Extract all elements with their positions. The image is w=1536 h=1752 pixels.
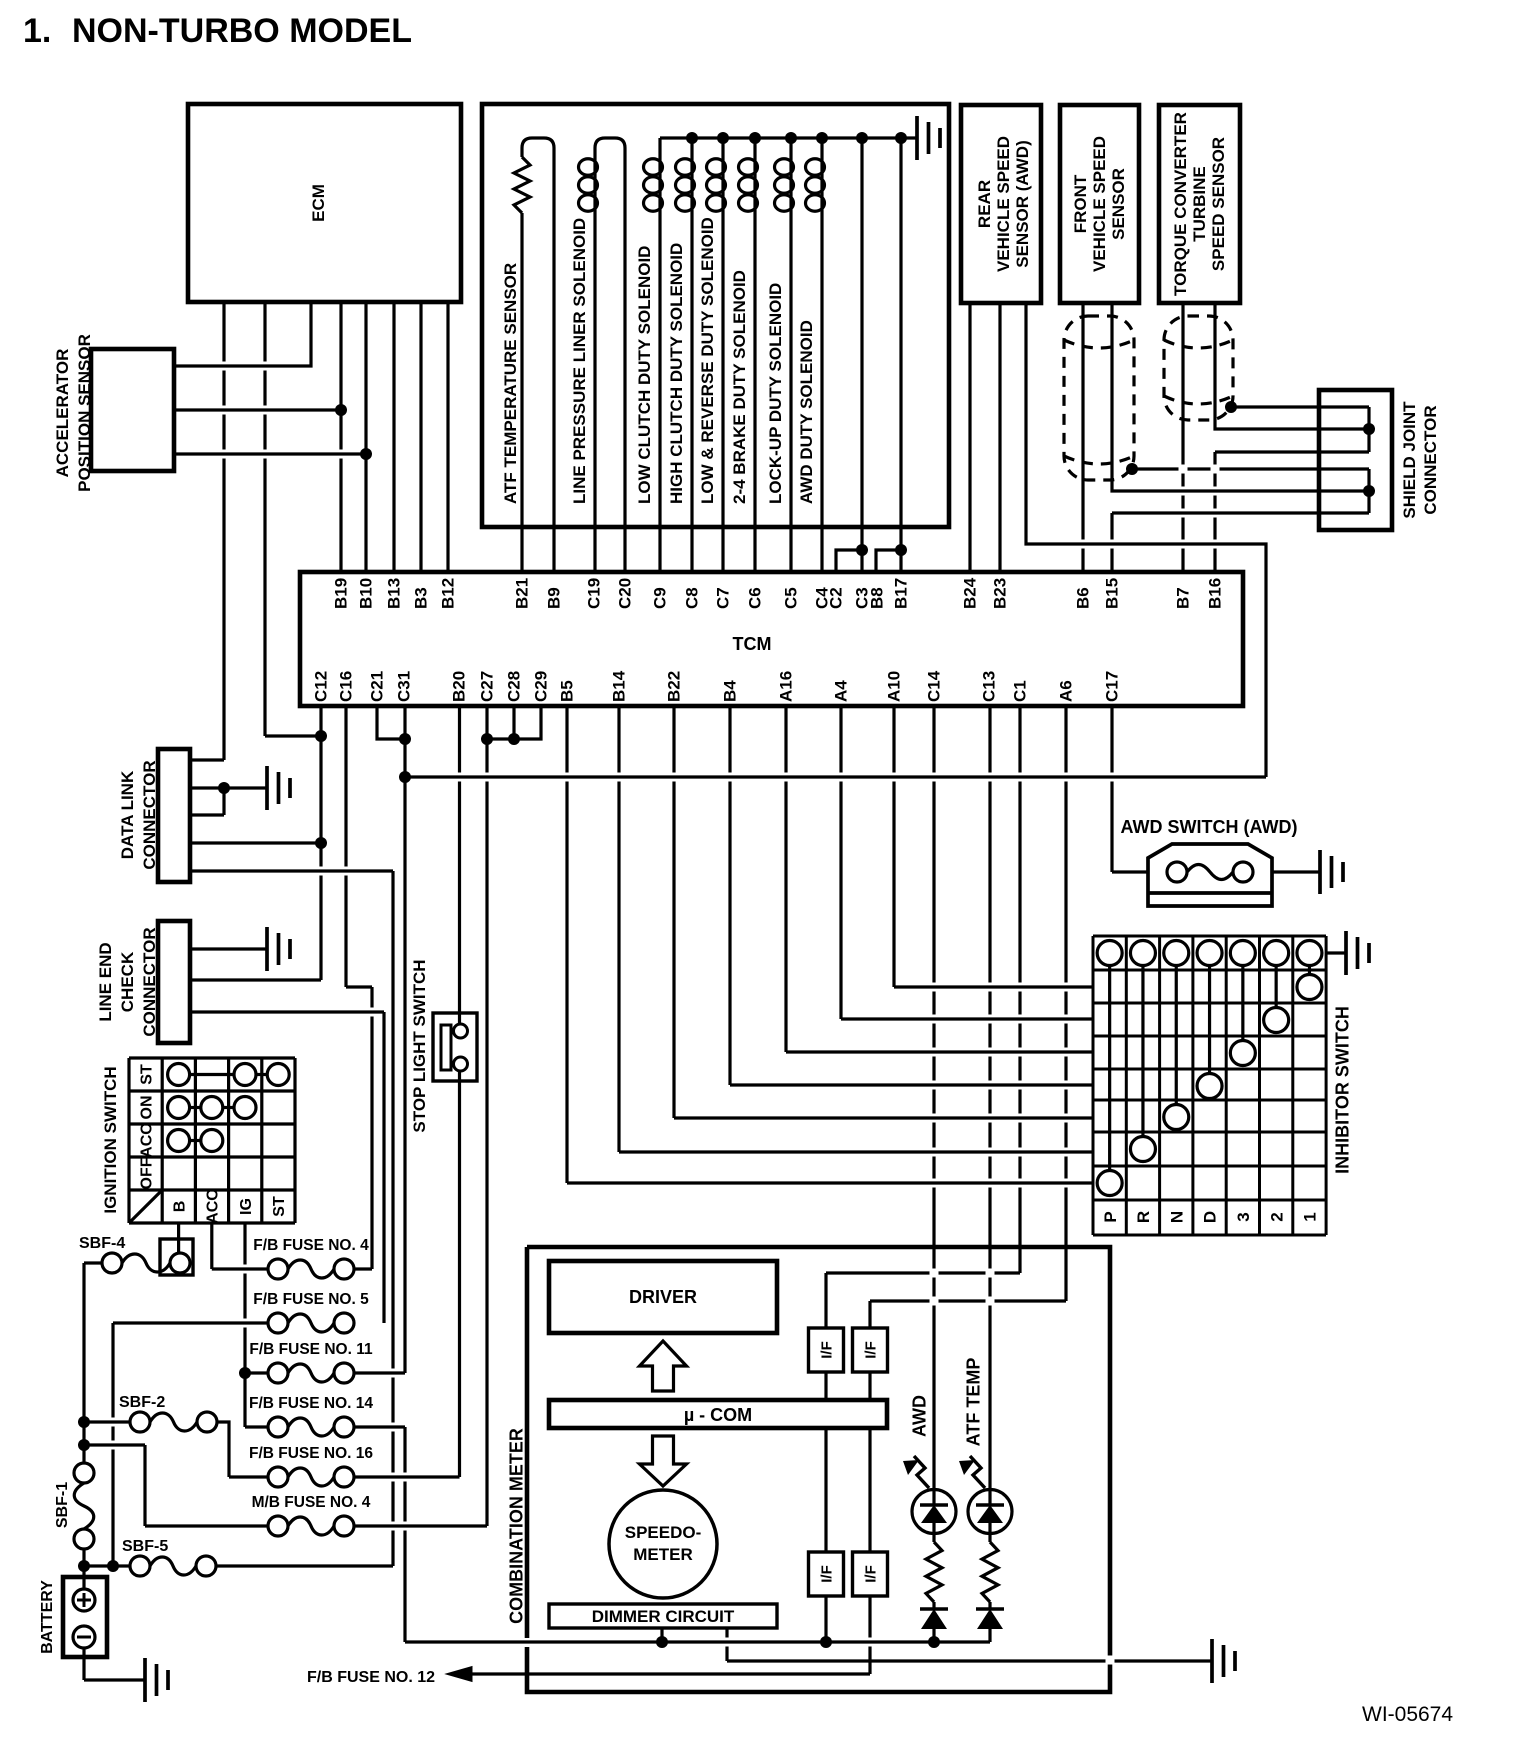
svg-text:STOP LIGHT SWITCH: STOP LIGHT SWITCH (410, 959, 429, 1132)
wire B17 (899, 138, 902, 572)
svg-text:µ - COM: µ - COM (684, 1405, 752, 1425)
wire I/F3 to bus (824, 1596, 827, 1642)
wire C16 (344, 706, 347, 987)
wire B23 (998, 303, 1001, 572)
rear vehicle speed sensor box (961, 105, 1041, 303)
ground data link (267, 766, 290, 810)
DRIVER box (549, 1261, 777, 1333)
svg-text:ECM: ECM (309, 184, 328, 222)
svg-text:C9: C9 (651, 587, 670, 609)
svg-text:B21: B21 (513, 578, 532, 609)
junction acc2/B19 (335, 404, 347, 416)
wire data link pin3 (190, 813, 224, 816)
inductor line pressure liner solenoid (593, 158, 596, 212)
junction bus x755 (749, 132, 761, 144)
svg-text:B19: B19 (332, 578, 351, 609)
svg-text:A4: A4 (832, 680, 851, 702)
ground battery (145, 1658, 168, 1702)
svg-text:C31: C31 (395, 671, 414, 702)
svg-text:COMBINATION METER: COMBINATION METER (506, 1428, 526, 1624)
junction bus x791 (785, 132, 797, 144)
ignition switch grid (129, 1058, 295, 1223)
svg-text:3: 3 (1234, 1212, 1253, 1221)
svg-text:C16: C16 (337, 671, 356, 702)
svg-text:TORQUE CONVERTER: TORQUE CONVERTER (1171, 112, 1190, 296)
fuse M/B FUSE NO. 4 (268, 1516, 288, 1536)
wire acc sensor pin2 to node B19 (174, 408, 341, 411)
junction rail/SBF-2 (78, 1416, 90, 1428)
junction AWD/bus (928, 1636, 940, 1648)
svg-text:AWD: AWD (909, 1395, 929, 1437)
wire data link pin4 to C12 (190, 841, 321, 844)
svg-text:I/F: I/F (818, 1565, 835, 1583)
wire B8 to B17 (876, 550, 901, 572)
wire B20 to stop light switch (458, 706, 461, 1024)
arrow up to driver (640, 1341, 687, 1391)
svg-text:C29: C29 (532, 671, 551, 702)
svg-text:INHIBITOR SWITCH: INHIBITOR SWITCH (1332, 1006, 1352, 1174)
wire dimmer to ground (725, 1628, 728, 1661)
I/F box 4 (853, 1552, 888, 1596)
TCM box (300, 572, 1243, 706)
svg-text:2: 2 (1267, 1212, 1286, 1221)
svg-text:AWD SWITCH (AWD): AWD SWITCH (AWD) (1121, 817, 1298, 837)
wire ignition ACC to fuse4 (210, 1223, 213, 1269)
data link connector box (158, 749, 190, 882)
wire A10 to inhibitor (892, 706, 895, 987)
svg-text:A10: A10 (885, 671, 904, 702)
svg-text:SPEEDO-: SPEEDO- (625, 1523, 702, 1542)
shield joint internal bus 1 (1367, 407, 1370, 452)
svg-text:FRONT: FRONT (1071, 174, 1090, 233)
svg-text:REAR: REAR (975, 180, 994, 228)
wire I/F1 to uCOM (824, 1372, 827, 1400)
svg-text:I/F: I/F (862, 1565, 879, 1583)
wire C1 to meter I/F (1018, 706, 1021, 1273)
svg-text:DRIVER: DRIVER (629, 1287, 697, 1307)
wire rear sensor shield to C31 net (1026, 303, 1266, 777)
I/F box 3 (809, 1552, 844, 1596)
svg-text:SBF-4: SBF-4 (79, 1235, 125, 1252)
svg-text:B22: B22 (665, 671, 684, 702)
wire B10 (364, 302, 367, 572)
svg-text:ACC: ACC (205, 1189, 222, 1224)
svg-text:ATF TEMP: ATF TEMP (963, 1358, 983, 1447)
wire battery negative to ground (82, 1648, 85, 1680)
wire ECM to data link connector (222, 302, 225, 760)
front vehicle speed sensor box (1060, 105, 1139, 303)
fuse F/B FUSE NO. 11 (268, 1363, 288, 1383)
shield joint connector box (1319, 390, 1392, 530)
svg-text:C28: C28 (505, 671, 524, 702)
torque shield drain junction (1225, 401, 1237, 413)
ground line end check (267, 927, 290, 971)
svg-text:HIGH CLUTCH DUTY SOLENOID: HIGH CLUTCH DUTY SOLENOID (667, 243, 686, 504)
ATF LED (968, 1490, 1012, 1534)
wire B21 loop (522, 138, 554, 572)
junction bus x822 (816, 132, 828, 144)
wire A6 feed to I/F2 (868, 1301, 871, 1328)
junction SBF-5 feed (107, 1560, 119, 1572)
svg-text:A6: A6 (1057, 680, 1076, 702)
AWD LED (912, 1490, 956, 1534)
wire B6 (1081, 303, 1084, 572)
svg-text:CONNECTOR: CONNECTOR (140, 760, 159, 869)
svg-text:CONNECTOR: CONNECTOR (140, 927, 159, 1036)
wire battery rail upper (82, 1422, 85, 1463)
junction data link ground (218, 782, 230, 794)
fuse SBF-2 (130, 1412, 150, 1432)
wire B16 TCM side (1213, 452, 1216, 572)
wire data link pin5 (190, 869, 393, 872)
svg-text:2-4 BRAKE DUTY SOLENOID: 2-4 BRAKE DUTY SOLENOID (730, 270, 749, 504)
svg-text:POSITION SENSOR: POSITION SENSOR (75, 334, 94, 492)
svg-text:B10: B10 (357, 578, 376, 609)
svg-text:B12: B12 (439, 578, 458, 609)
wire SBF-4 to battery rail (84, 1261, 102, 1264)
line end check connector box (158, 921, 190, 1043)
svg-text:C1: C1 (1011, 680, 1030, 702)
junction C31/horizontal (399, 771, 411, 783)
wire SBF-5 output (216, 1564, 393, 1567)
svg-text:LOW CLUTCH DUTY SOLENOID: LOW CLUTCH DUTY SOLENOID (635, 246, 654, 504)
wire B19 (339, 302, 342, 572)
junction bus/IF3 (820, 1636, 832, 1648)
ECM box (188, 104, 461, 302)
svg-text:R: R (1134, 1211, 1153, 1223)
wire data link pin1 (190, 758, 224, 761)
svg-text:C27: C27 (478, 671, 497, 702)
wire C13 to ATF lamp (988, 706, 991, 1491)
junction bus x692 (686, 132, 698, 144)
svg-text:VEHICLE SPEED: VEHICLE SPEED (1090, 136, 1109, 272)
wire SBF-2 to fuse16 (217, 1422, 229, 1477)
svg-text:SPEED SENSOR: SPEED SENSOR (1209, 137, 1228, 271)
wire stop light switch to fuse16 (458, 1071, 461, 1477)
resistor ATF temperature sensor (514, 157, 530, 213)
ATF lamp flash arrow (970, 1456, 985, 1488)
svg-text:WI-05674: WI-05674 (1362, 1703, 1453, 1726)
wire rail to SBF-5 (84, 1564, 130, 1567)
inhibitor top contacts (1097, 941, 1122, 966)
junction C28 tie (508, 733, 520, 745)
svg-text:F/B FUSE NO. 12: F/B FUSE NO. 12 (307, 1669, 435, 1686)
inhibitor moving contacts (1097, 1171, 1122, 1196)
wire fuse16 left from SBF-2 (229, 1475, 268, 1478)
svg-text:N: N (1167, 1211, 1186, 1223)
ignition ACC row contacts (168, 1130, 190, 1152)
svg-text:I/F: I/F (818, 1341, 835, 1359)
svg-text:B3: B3 (412, 587, 431, 609)
I/F box 1 (809, 1328, 844, 1372)
junction bus x901 (895, 132, 907, 144)
svg-text:BATTERY: BATTERY (39, 1580, 56, 1654)
wire C3 (860, 138, 863, 572)
inductor LOW CLUTCH DUTY SOLENOID (658, 158, 661, 212)
wire B15 TCM side (1110, 513, 1113, 572)
svg-text:SENSOR: SENSOR (1109, 168, 1128, 240)
stop light switch box (433, 1013, 477, 1081)
svg-text:F/B FUSE NO. 4: F/B FUSE NO. 4 (253, 1237, 369, 1254)
front sensor shield (dashed) (1064, 316, 1134, 480)
junction shield bus 1 (1363, 423, 1375, 435)
svg-text:C2: C2 (827, 587, 846, 609)
svg-text:ST: ST (138, 1064, 155, 1085)
wire C19 loop (595, 138, 625, 572)
wire B4 to inhibitor (728, 706, 731, 1085)
wire AWD switch to ground (1272, 870, 1320, 873)
stop light switch contacts (454, 1024, 468, 1038)
junction C12/data link (315, 837, 327, 849)
svg-text:B5: B5 (558, 680, 577, 702)
wire C31 (403, 706, 406, 1373)
svg-text:B7: B7 (1174, 587, 1193, 609)
fuse F/B FUSE NO. 16 (268, 1467, 288, 1487)
svg-text:C19: C19 (585, 578, 604, 609)
inductor LOW &amp; REVERSE DUTY SOLENOID (721, 158, 724, 212)
junction C27 tie (481, 733, 493, 745)
inhibitor contact links (1108, 966, 1111, 1171)
svg-text:C7: C7 (714, 587, 733, 609)
wire B13 (392, 302, 395, 572)
svg-text:ACC: ACC (138, 1123, 155, 1158)
wire fuse11 right to C31 (354, 1371, 405, 1374)
svg-text:C17: C17 (1103, 671, 1122, 702)
svg-text:SHIELD JOINT: SHIELD JOINT (1400, 401, 1419, 519)
battery + terminal (73, 1589, 95, 1611)
svg-text:F/B FUSE NO. 5: F/B FUSE NO. 5 (253, 1291, 369, 1308)
inductor HIGH CLUTCH DUTY SOLENOID (690, 158, 693, 212)
svg-text:M/B FUSE NO. 4: M/B FUSE NO. 4 (252, 1494, 371, 1511)
diode ATF (988, 1602, 991, 1609)
junction bus/dimmer (656, 1636, 668, 1648)
wire line end pin1 to ground (190, 947, 267, 950)
svg-text:DATA LINK: DATA LINK (118, 770, 137, 859)
ignition ON row contacts (168, 1097, 190, 1119)
svg-text:I/F: I/F (862, 1341, 879, 1359)
fuse SBF-4 (102, 1253, 122, 1273)
svg-text:TURBINE: TURBINE (1190, 166, 1209, 242)
svg-text:B9: B9 (545, 587, 564, 609)
wire C2 to C3 (836, 550, 862, 572)
wire fuse14 left (245, 1425, 268, 1428)
stop light switch bar (441, 1025, 451, 1070)
wire battery rail to SBF-2 (84, 1420, 130, 1423)
svg-text:C20: C20 (616, 578, 635, 609)
svg-text:LINE PRESSURE LINER SOLENOID: LINE PRESSURE LINER SOLENOID (570, 218, 589, 504)
junction rail/MB-feed (78, 1439, 90, 1451)
wire B14 to inhibitor (617, 706, 620, 1152)
fuse F/B FUSE NO. 5 (268, 1313, 288, 1333)
svg-text:1: 1 (1301, 1212, 1320, 1221)
wire B16 sensor side (1215, 303, 1369, 429)
wire dimmer left to bus (660, 1628, 663, 1642)
svg-text:AWD DUTY SOLENOID: AWD DUTY SOLENOID (797, 320, 816, 504)
junction rail/battery (78, 1560, 90, 1572)
svg-text:VEHICLE SPEED: VEHICLE SPEED (994, 136, 1013, 272)
junction shield bus 2 (1363, 485, 1375, 497)
wire acc sensor pin1 to ECM (174, 302, 311, 366)
inductor AWD DUTY SOLENOID (820, 158, 823, 212)
svg-text:B4: B4 (721, 680, 740, 702)
svg-text:OFF: OFF (138, 1157, 155, 1189)
svg-text:B13: B13 (385, 578, 404, 609)
svg-text:LINE END: LINE END (96, 942, 115, 1021)
svg-text:C21: C21 (368, 671, 387, 702)
svg-text:A16: A16 (777, 671, 796, 702)
wire uCOM to I/F4 (868, 1428, 871, 1552)
wire solenoid 2-4 pin (753, 212, 756, 572)
wire ignition B to SBF-4 (177, 1223, 180, 1253)
battery - terminal (73, 1626, 95, 1648)
junction bus x862 (856, 132, 868, 144)
wire illumination bus (405, 1640, 990, 1643)
wire B22 to inhibitor (672, 706, 675, 1118)
svg-text:B8: B8 (868, 587, 887, 609)
battery box (63, 1577, 107, 1657)
arrow to F/B FUSE NO. 12 (446, 1667, 472, 1682)
junction acc3/B10 (360, 448, 372, 460)
wire fuse5 left to battery rail (113, 1321, 268, 1324)
ground AWD switch (1320, 850, 1343, 894)
wire battery rail lower (82, 1549, 85, 1589)
svg-text:TCM: TCM (733, 634, 772, 654)
wire A4 to inhibitor (839, 706, 842, 1019)
wire C27 (485, 706, 488, 1526)
wire acc sensor pin3 to node B10 (174, 452, 366, 455)
svg-text:B24: B24 (961, 577, 980, 609)
wire C1 feed to I/F1 (824, 1273, 827, 1328)
svg-text:IG: IG (238, 1198, 255, 1215)
svg-text:B14: B14 (610, 670, 629, 702)
inhibitor switch grid (1093, 936, 1326, 1235)
ground solenoid box (917, 116, 940, 160)
wire ECM to node C12 (263, 302, 266, 736)
wire A6 to meter I/F (1064, 706, 1067, 1301)
wire C17 to AWD switch (1110, 706, 1113, 872)
wire M/B fuse4 left feed (84, 1443, 145, 1446)
wire B24 (968, 303, 971, 572)
DIMMER CIRCUIT box (549, 1604, 777, 1628)
wire C12 (319, 706, 322, 980)
svg-text:F/B FUSE NO. 14: F/B FUSE NO. 14 (249, 1395, 373, 1412)
svg-text:F/B FUSE NO. 16: F/B FUSE NO. 16 (249, 1445, 373, 1462)
resistor ATF lamp (982, 1542, 998, 1602)
AWD lamp flash arrow (914, 1456, 929, 1488)
wire solenoid LOCK-UP pin (789, 212, 792, 572)
svg-text:P: P (1101, 1211, 1120, 1222)
ground dimmer line (1212, 1639, 1235, 1683)
inductor LOCK-UP DUTY SOLENOID (789, 158, 792, 212)
torque converter turbine speed sensor box (1159, 105, 1240, 303)
front shield drain junction (1126, 463, 1138, 475)
arrow down to speedometer (640, 1436, 687, 1486)
wire C21 (377, 706, 405, 739)
svg-text:METER: METER (633, 1545, 693, 1564)
torque sensor shield (dashed) (1164, 316, 1233, 420)
u-COM bar (549, 1400, 887, 1428)
svg-text:LOCK-UP DUTY SOLENOID: LOCK-UP DUTY SOLENOID (766, 283, 785, 504)
wire torque shield drain (1231, 405, 1369, 408)
svg-text:SBF-1: SBF-1 (54, 1482, 71, 1528)
wire solenoid LOW pin (721, 212, 724, 572)
wire uCOM to I/F3 (824, 1428, 827, 1552)
wire C29 (487, 706, 541, 739)
ground inhibitor switch (1346, 931, 1369, 975)
svg-text:B16: B16 (1206, 578, 1225, 609)
inductor 2-4 BRAKE DUTY SOLENOID (753, 158, 756, 212)
fuse F/B FUSE NO. 4 (268, 1259, 288, 1279)
wire C28 (512, 706, 515, 739)
wire B3 (419, 302, 422, 572)
svg-text:B20: B20 (450, 671, 469, 702)
wire I/F4 to fuse12 line (868, 1596, 871, 1674)
svg-text:B23: B23 (991, 578, 1010, 609)
svg-text:B: B (171, 1201, 188, 1213)
wire B5 to inhibitor (565, 706, 568, 1183)
wire I/F2 to uCOM (868, 1372, 871, 1400)
wire solenoid ground bus (660, 136, 917, 139)
svg-text:F/B FUSE NO. 11: F/B FUSE NO. 11 (249, 1341, 373, 1358)
svg-text:ATF TEMPERATURE SENSOR: ATF TEMPERATURE SENSOR (501, 263, 520, 504)
svg-text:ST: ST (271, 1196, 288, 1217)
wire solenoid LOW pin (658, 212, 661, 572)
svg-text:1.: 1. (23, 12, 51, 50)
junction ECM/C12 (315, 730, 327, 742)
diode AWD (932, 1602, 935, 1609)
svg-text:C12: C12 (312, 671, 331, 702)
wire B15 sensor side (1112, 303, 1369, 491)
svg-text:CONNECTOR: CONNECTOR (1421, 405, 1440, 514)
wire ignition IG to fuses (243, 1223, 246, 1427)
junction bus x723 (717, 132, 729, 144)
junction C21/C31 (399, 733, 411, 745)
svg-text:C8: C8 (683, 587, 702, 609)
wire B7 (1181, 303, 1184, 572)
svg-text:SBF-5: SBF-5 (122, 1538, 168, 1555)
AWD switch contacts (1167, 862, 1187, 882)
wire data link pin2 to ground (190, 786, 267, 789)
wire C14 to AWD lamp (932, 706, 935, 1491)
fuse SBF-5 (130, 1556, 150, 1576)
svg-text:C13: C13 (980, 671, 999, 702)
wire A16 to inhibitor (784, 706, 787, 1052)
svg-text:NON-TURBO MODEL: NON-TURBO MODEL (72, 12, 412, 50)
svg-text:B17: B17 (892, 578, 911, 609)
wire line end pin3 (190, 1010, 384, 1013)
wire fuse11 left (245, 1371, 268, 1374)
wire line end pin2 to C12 (190, 978, 321, 981)
junction IG/fuse11 (239, 1367, 251, 1379)
ignition ST row contacts (168, 1064, 190, 1086)
accelerator position sensor box (91, 349, 174, 471)
svg-text:C6: C6 (746, 587, 765, 609)
wire solenoid AWD pin (820, 212, 823, 572)
svg-text:B6: B6 (1074, 587, 1093, 609)
svg-text:DIMMER CIRCUIT: DIMMER CIRCUIT (592, 1607, 735, 1626)
wire inhibitor to ground (1326, 951, 1346, 954)
svg-text:ACCELERATOR: ACCELERATOR (53, 349, 72, 478)
wire B12 (446, 302, 449, 572)
svg-text:C5: C5 (782, 587, 801, 609)
wire fuse14 right to bus (354, 1425, 405, 1428)
wire solenoid HIGH pin (690, 212, 693, 572)
svg-text:C14: C14 (925, 670, 944, 702)
svg-text:ON: ON (138, 1096, 155, 1120)
svg-text:IGNITION SWITCH: IGNITION SWITCH (101, 1066, 120, 1213)
svg-text:SENSOR (AWD): SENSOR (AWD) (1013, 140, 1032, 268)
combination meter box (527, 1247, 1110, 1692)
